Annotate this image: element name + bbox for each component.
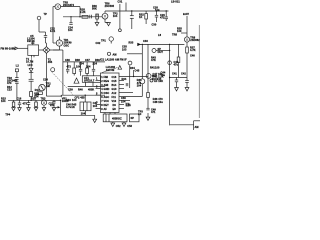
wire stub <box>127 53 142 55</box>
trimmer CT2 <box>128 61 132 65</box>
test point TP2 label <box>113 13 118 19</box>
resistor R14 cluster <box>35 89 43 97</box>
svg-text:C32: C32 <box>96 42 101 45</box>
capacitor C28 <box>152 7 160 27</box>
svg-text:AM: AM <box>113 53 117 56</box>
svg-text:AM: AM <box>46 85 50 88</box>
capacitor C16 <box>17 98 28 111</box>
ceramic filter CF1 <box>82 76 100 83</box>
wire T1 to LFC <box>31 57 33 66</box>
svg-text:C31: C31 <box>118 1 123 4</box>
wire vertical x126 top <box>125 3 127 12</box>
junction dot <box>60 100 61 101</box>
ground audio line <box>146 113 150 120</box>
svg-text:104: 104 <box>86 65 91 68</box>
wire TR5 collector down to rail <box>79 7 81 17</box>
IF bus top <box>63 61 105 63</box>
capacitor C45 plates <box>126 83 128 86</box>
connector AF <box>150 79 163 83</box>
chassis triangle <box>118 66 122 70</box>
frame bottom line <box>170 124 194 126</box>
svg-text:47K: 47K <box>151 59 156 62</box>
main right bus vertical <box>169 44 171 125</box>
capacitor C36 <box>66 62 69 74</box>
svg-text:C34: C34 <box>79 63 84 66</box>
svg-text:104: 104 <box>93 105 98 108</box>
resistor R44 <box>177 44 180 77</box>
diode D2 <box>129 40 149 46</box>
svg-text:224: 224 <box>93 63 98 66</box>
IC1 pin rows right <box>112 76 117 111</box>
crystal filter CF2 <box>75 95 92 115</box>
AM rail <box>8 99 61 101</box>
tuning gang circle <box>51 68 55 72</box>
svg-text:C45: C45 <box>135 70 140 73</box>
svg-text:A12: A12 <box>112 92 117 95</box>
svg-text:C39: C39 <box>68 89 73 92</box>
antenna terminal <box>37 13 47 32</box>
svg-text:4 GND: 4 GND <box>101 88 109 91</box>
svg-text:C52: C52 <box>116 125 121 128</box>
svg-text:455K: 455K <box>88 89 94 92</box>
svg-text:AM FM: AM FM <box>106 69 115 72</box>
svg-text:SP: SP <box>131 117 135 120</box>
resistor R39 <box>86 62 89 76</box>
svg-text:L8: L8 <box>158 34 162 37</box>
ground under C42 <box>185 88 189 92</box>
svg-text:C53: C53 <box>127 125 132 128</box>
svg-text:56K: 56K <box>92 8 97 11</box>
svg-text:7 VCC: 7 VCC <box>101 100 109 103</box>
IC1 pin stubs right <box>119 81 133 109</box>
svg-text:C16: C16 <box>112 76 117 79</box>
wire CF1 stubs <box>85 82 87 86</box>
resistor R29 on rail <box>82 15 88 18</box>
tuning gang dashed link <box>52 72 73 94</box>
AM antenna chain <box>15 69 18 100</box>
coil L3 <box>29 66 33 79</box>
svg-text:R40: R40 <box>78 89 83 92</box>
svg-text:SFE10.7: SFE10.7 <box>84 80 95 83</box>
warning triangle <box>74 78 79 83</box>
resistor R35 stub <box>177 28 187 34</box>
capacitor C26 on rail <box>130 11 134 29</box>
capacitor C5 above mixer <box>30 32 47 47</box>
svg-text:AM: AM <box>195 126 199 129</box>
component pin9 <box>126 103 129 106</box>
svg-text:2 REG: 2 REG <box>101 80 109 83</box>
wire pin11 <box>124 96 142 98</box>
svg-text:R38: R38 <box>75 59 80 62</box>
svg-text:C42: C42 <box>181 73 186 76</box>
wire vertical from TR5 down left column <box>52 7 54 44</box>
resistor R16 <box>31 98 37 108</box>
svg-text:2SC1674: 2SC1674 <box>63 4 75 7</box>
svg-text:2.2K: 2.2K <box>80 11 86 14</box>
wire from 9V down <box>186 16 188 37</box>
svg-text:C48 10u: C48 10u <box>153 101 164 104</box>
transistor TR7 <box>140 75 162 96</box>
FM tuner box T1 <box>26 37 39 63</box>
svg-text:C37: C37 <box>85 59 90 62</box>
svg-text:9.0V: 9.0V <box>183 12 189 16</box>
svg-text:104: 104 <box>68 29 73 32</box>
test point TP5 <box>107 52 110 55</box>
svg-text:TP1: TP1 <box>101 40 106 43</box>
svg-text:L2: L2 <box>16 64 20 67</box>
transistor TR5 <box>53 2 80 10</box>
IC1 bottom stubs <box>105 113 115 115</box>
svg-text:R33: R33 <box>129 41 134 44</box>
junction dot <box>79 16 80 17</box>
connector block J3 <box>130 114 140 122</box>
IC1 LA1260 <box>100 58 127 112</box>
wire pin15 branch <box>129 65 131 88</box>
ground under T2 left <box>111 122 121 128</box>
svg-text:AF: AF <box>138 113 142 116</box>
svg-text:223: 223 <box>50 104 55 107</box>
svg-text:V10: V10 <box>112 100 117 103</box>
wire mixer-to-bus <box>62 50 64 95</box>
svg-text:R42 2.2K: R42 2.2K <box>153 76 164 79</box>
capacitor C38 <box>92 62 95 76</box>
label C47 <box>93 102 98 108</box>
junction dot <box>142 44 143 45</box>
svg-text:C13: C13 <box>7 88 12 91</box>
svg-text:100: 100 <box>155 67 160 70</box>
transistor TR3 <box>41 97 47 107</box>
svg-text:472: 472 <box>160 17 165 20</box>
ground under T2 right <box>122 122 132 128</box>
svg-text:AF 10K: AF 10K <box>154 80 163 83</box>
volume VR1 <box>56 98 77 116</box>
resistor R32 <box>139 11 147 24</box>
tuning block T2 <box>103 114 127 122</box>
svg-text:C16: C16 <box>17 98 22 101</box>
pointer line <box>102 68 118 73</box>
svg-text:9 AF: 9 AF <box>101 108 107 111</box>
junction dot <box>70 16 71 17</box>
title block <box>193 121 195 130</box>
svg-text:4.7K: 4.7K <box>190 49 196 52</box>
transistor TR6 <box>102 3 115 23</box>
svg-text:104: 104 <box>137 84 142 87</box>
power rail 9V <box>105 10 169 12</box>
svg-text:LB-521: LB-521 <box>171 1 180 4</box>
svg-text:TP4: TP4 <box>5 114 10 117</box>
resistor R34 <box>130 67 135 77</box>
svg-text:R16: R16 <box>31 98 36 101</box>
transistor internals <box>43 5 188 104</box>
svg-text:1K: 1K <box>72 106 75 109</box>
svg-text:0.01: 0.01 <box>50 30 56 33</box>
wire vertical x120 <box>119 4 121 28</box>
svg-text:473: 473 <box>23 103 28 106</box>
resistor R38 <box>73 62 76 76</box>
ground under TR6 <box>105 23 110 26</box>
svg-text:TP: TP <box>44 13 48 16</box>
svg-text:C30: C30 <box>152 24 157 27</box>
connector J2 <box>152 48 170 54</box>
wire CF2 bottom <box>61 111 95 116</box>
junction dot <box>169 44 170 45</box>
capacitor C37 <box>79 62 82 76</box>
svg-text:472: 472 <box>67 65 72 68</box>
capacitor C29 <box>160 10 168 21</box>
svg-text:E8: E8 <box>113 108 117 111</box>
svg-text:OSC: OSC <box>64 44 70 47</box>
svg-text:104: 104 <box>30 37 35 40</box>
svg-text:104: 104 <box>1 100 6 103</box>
svg-text:O15: O15 <box>112 80 117 83</box>
mixer MIX1 <box>39 47 50 54</box>
svg-text:C41: C41 <box>172 73 177 76</box>
resistor R46 on audio line <box>147 93 150 98</box>
svg-text:D9: D9 <box>113 104 117 107</box>
IF bus 2 <box>68 85 105 87</box>
transistor TR8 <box>158 34 200 48</box>
svg-text:IC1 LA1260 AM FM IF: IC1 LA1260 AM FM IF <box>100 58 127 61</box>
resistor R43 labels <box>151 57 156 63</box>
svg-text:8 DET: 8 DET <box>101 104 109 107</box>
svg-text:47u: 47u <box>174 64 179 67</box>
IC1 pin rows left <box>101 76 109 111</box>
svg-text:F11: F11 <box>112 96 117 99</box>
coil L4 <box>30 92 33 97</box>
ground CF2 <box>93 115 97 122</box>
svg-text:2SC535: 2SC535 <box>105 5 115 8</box>
junction dot <box>85 95 86 96</box>
capacitor C49 <box>146 108 156 114</box>
top rail wire <box>63 16 102 18</box>
svg-text:103: 103 <box>122 48 127 51</box>
svg-text:473: 473 <box>7 82 12 85</box>
svg-text:C40: C40 <box>190 55 195 58</box>
resistor R15 hanging <box>12 100 16 111</box>
right edge border <box>198 25 200 118</box>
svg-text:R34: R34 <box>122 78 127 81</box>
test point TP1 <box>96 37 128 52</box>
ground under C41 <box>175 88 179 92</box>
svg-text:B14: B14 <box>112 84 117 87</box>
FM ANT input <box>1 47 28 51</box>
IC1 pin stubs left <box>96 81 101 109</box>
svg-text:C19: C19 <box>66 99 71 102</box>
svg-text:2SD882: 2SD882 <box>190 39 200 42</box>
junction dot <box>131 10 132 11</box>
wire mixer down <box>45 53 47 96</box>
capacitor C25 on rail <box>90 15 92 19</box>
svg-text:OUT: OUT <box>158 51 164 54</box>
svg-text:104: 104 <box>155 9 160 12</box>
svg-text:10K: 10K <box>76 65 81 68</box>
IC1 output wire <box>119 76 148 78</box>
svg-text:455: 455 <box>48 61 53 64</box>
svg-text:FM 88-108M: FM 88-108M <box>1 48 16 51</box>
svg-text:C51: C51 <box>126 104 131 107</box>
svg-text:1 FMI: 1 FMI <box>101 76 108 79</box>
right h-line <box>170 77 187 79</box>
svg-text:471: 471 <box>151 111 156 114</box>
capacitor C42 <box>181 73 189 88</box>
capacitor C12 <box>29 79 34 91</box>
svg-text:TR8: TR8 <box>172 34 177 37</box>
svg-text:6 AGC: 6 AGC <box>101 96 109 99</box>
svg-text:3 AMI: 3 AMI <box>101 84 108 87</box>
svg-text:1K: 1K <box>139 16 142 19</box>
svg-text:104: 104 <box>113 15 118 18</box>
transistor TR1 <box>53 37 72 51</box>
block label <box>153 73 164 79</box>
svg-text:LFC: LFC <box>28 64 33 67</box>
capacitor C17 hanging <box>27 100 31 111</box>
resistor R37 <box>186 47 196 78</box>
svg-text:C14: C14 <box>43 79 48 82</box>
IC1 pin numbers left <box>96 78 98 105</box>
AM IF wire <box>61 94 105 96</box>
wire TR7 feed <box>141 44 143 78</box>
ground under TR3 <box>42 108 46 111</box>
connector circle node <box>168 61 172 65</box>
main audio vertical <box>147 44 149 92</box>
svg-text:C33: C33 <box>143 40 148 43</box>
svg-text:C36: C36 <box>65 59 70 62</box>
resistor R31 hanging <box>95 14 99 26</box>
wire mixer out <box>50 49 53 51</box>
svg-text:G13: G13 <box>112 88 117 91</box>
wire AF line <box>140 43 184 45</box>
svg-text:104: 104 <box>35 94 40 97</box>
transistor TR2 <box>39 82 51 90</box>
ground under R16 <box>34 108 38 111</box>
wire bottom AM <box>46 95 61 97</box>
capacitor C18 <box>50 100 56 111</box>
capacitor C41 <box>172 73 178 88</box>
svg-text:104: 104 <box>72 99 77 102</box>
svg-text:5 OSC: 5 OSC <box>101 92 109 95</box>
capacitor C24 hanging <box>68 17 73 32</box>
svg-text:455KHZ: 455KHZ <box>112 117 122 120</box>
terminal circle <box>119 28 122 32</box>
capacitor C40b labels <box>174 61 179 67</box>
